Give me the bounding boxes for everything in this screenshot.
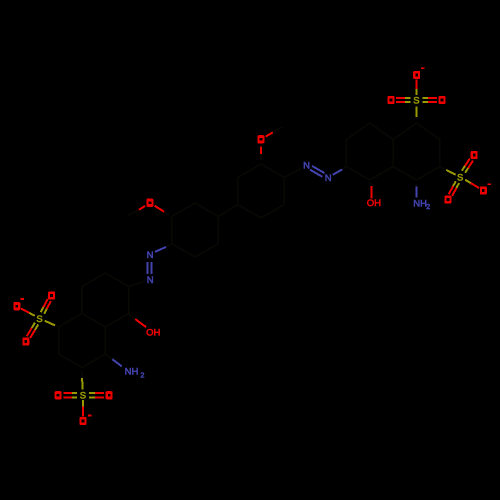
bond O-C(ring C) methoxy 2 <box>260 147 262 154</box>
benzene ring D (biphenyl lower, methoxy) <box>195 203 218 217</box>
azo 1 N=N double bond <box>310 170 323 177</box>
bond N2-C(B5) azo1 to naphthalene <box>333 169 343 174</box>
bond C(P6)-S3 <box>55 325 59 327</box>
benzene ring B (naphthalene 1, OH/azo ring) <box>370 123 393 140</box>
svg-text:N: N <box>325 173 332 184</box>
minus charge of O- (S4) <box>88 415 91 417</box>
atom O right of S1 <box>439 96 446 104</box>
bond C(Q3)-O hydroxyl 2 <box>129 314 136 320</box>
biphenyl link bond C-D <box>218 205 237 217</box>
benzene ring A' (naphthalene 2, sulfo ring) <box>82 314 105 328</box>
S=O double bond lower left (S2) <box>452 181 456 188</box>
bond ringC-N1 azo1 (dark) <box>284 168 301 178</box>
S=O double bond right (S4) <box>89 396 97 398</box>
atom O left of S1 <box>388 96 395 104</box>
atom O left of S4 <box>55 391 62 399</box>
bond O-CH3 methoxy 2 <box>266 133 273 137</box>
bond C(ring D)-N3 azo 2 <box>166 244 172 247</box>
bond C(B4)-O hydroxyl 1 <box>370 182 372 186</box>
benzene ring C (biphenyl upper, methoxy) <box>261 164 284 178</box>
svg-text:NH: NH <box>413 199 427 210</box>
S-O single bond upper left (S3) <box>27 312 35 316</box>
S-O single bond top (S1) <box>416 86 418 95</box>
atom O upper right of S2 <box>471 151 478 159</box>
bond C(P4)-S4 <box>81 372 83 379</box>
svg-text:OH: OH <box>367 198 381 209</box>
methyl stub of methoxy 1 (dark) <box>128 210 139 216</box>
atom O- below S4 <box>80 417 87 425</box>
S=O double bond lower left (S3) <box>30 323 35 331</box>
atom O upper right of S3 <box>48 291 55 299</box>
atom O methoxy 1 <box>146 199 153 207</box>
svg-text:S: S <box>36 314 42 325</box>
methyl stub of methoxy 2 (dark) <box>273 127 283 133</box>
svg-text:2: 2 <box>426 204 430 211</box>
svg-text:S: S <box>413 96 419 107</box>
S-O single bond bottom (S4) <box>82 400 84 409</box>
bond C(A3)-S2 <box>440 167 446 170</box>
bond C(A4)-N amine 1 <box>416 184 418 187</box>
atom O lower left of S3 <box>22 338 29 346</box>
minus charge of O- (S1) <box>421 68 424 70</box>
svg-text:NH: NH <box>125 366 139 377</box>
svg-text:OH: OH <box>146 327 160 338</box>
atom O methoxy 2 <box>257 135 264 143</box>
svg-text:N: N <box>303 161 310 172</box>
bond O-C(ring D) methoxy 1 <box>155 206 165 212</box>
svg-text:S: S <box>80 391 86 402</box>
bond C(A1)-S1 <box>416 117 418 119</box>
svg-text:N: N <box>147 275 154 286</box>
atom O- above S1 <box>413 71 420 79</box>
svg-text:S: S <box>457 172 463 183</box>
svg-text:2: 2 <box>141 373 145 380</box>
atom O- upper left of S3 <box>13 302 20 310</box>
bond O-CH3 methoxy 1 <box>139 206 145 210</box>
S-O single bond lower right (S2) <box>465 180 473 185</box>
atom O lower left of S2 <box>445 196 452 204</box>
atom O- right of S2 <box>480 187 487 195</box>
S=O double bond left (S1) <box>403 97 411 99</box>
benzene ring A (naphthalene 1, sulfo ring) <box>417 123 440 140</box>
bond ringB'-N4 azo2 (dark) <box>129 281 145 286</box>
minus charge of O- (S2) <box>488 184 491 186</box>
S=O double bond upper right (S3) <box>44 307 48 314</box>
atom O right of S4 <box>106 391 113 399</box>
bond C(P3)-N amine 2 <box>105 354 112 359</box>
benzene ring B' (naphthalene 2, OH/azo ring) <box>105 273 128 287</box>
azo 2 N=N double bond <box>147 262 149 274</box>
minus charge of O- (S3) <box>20 298 23 300</box>
S=O double bond right (S1) <box>423 101 431 103</box>
S=O double bond left (S4) <box>69 392 77 394</box>
S=O double bond upper right (S2) <box>465 166 469 173</box>
svg-text:N: N <box>147 250 154 261</box>
